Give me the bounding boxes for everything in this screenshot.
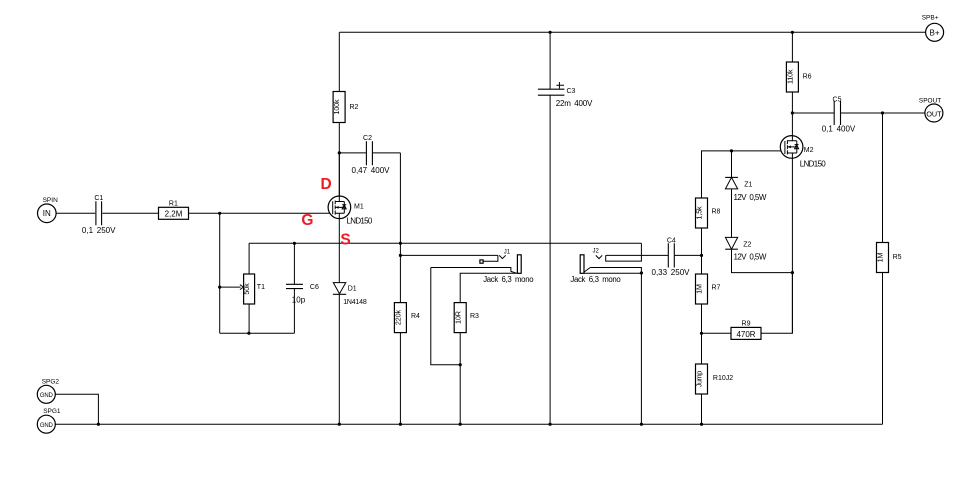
svg-text:C3: C3 — [567, 88, 576, 95]
node R2-C2 junction — [338, 151, 341, 154]
node T1 bottom junction — [247, 332, 250, 335]
svg-text:R8: R8 — [712, 209, 721, 216]
wire gate junction down to T1 branch — [219, 213, 221, 333]
svg-text:T1: T1 — [257, 284, 265, 291]
node R3-J1 junction — [459, 363, 462, 366]
node C5-R5 junction — [881, 111, 884, 114]
svg-text:R1: R1 — [169, 200, 178, 207]
zener Z2 — [725, 237, 792, 272]
wire top rail — [339, 31, 925, 33]
node R6-C5-M2 junction — [791, 111, 794, 114]
resistor R3 — [453, 303, 479, 425]
jack J1 — [400, 249, 534, 364]
jack J2 — [570, 243, 668, 424]
svg-text:LND150: LND150 — [800, 160, 826, 169]
node T1 wiper junction — [218, 286, 221, 289]
svg-text:S: S — [340, 232, 350, 249]
svg-text:0,33 250V: 0,33 250V — [652, 268, 691, 277]
svg-text:OUT: OUT — [926, 109, 942, 118]
resistor R1 — [159, 200, 189, 219]
svg-text:Z2: Z2 — [743, 242, 751, 249]
svg-text:0,1 400V: 0,1 400V — [822, 125, 856, 134]
svg-text:10p: 10p — [292, 296, 306, 305]
terminal SPG1 — [37, 408, 61, 433]
svg-text:Jump: Jump — [695, 371, 704, 387]
potentiometer T1 — [220, 243, 265, 333]
svg-text:LND150: LND150 — [347, 216, 373, 225]
node J2 ground junction — [640, 271, 643, 274]
svg-text:D: D — [321, 176, 332, 193]
svg-text:100k: 100k — [332, 99, 341, 115]
wire bottom rail — [55, 423, 882, 425]
svg-text:1N4148: 1N4148 — [343, 299, 367, 306]
node C3 top — [549, 31, 552, 34]
svg-text:M2: M2 — [804, 147, 814, 154]
svg-text:SPIN: SPIN — [43, 197, 58, 204]
svg-text:R7: R7 — [712, 284, 721, 291]
svg-text:R9: R9 — [742, 320, 751, 327]
svg-text:G: G — [301, 212, 313, 229]
terminal SPB+ — [922, 15, 944, 42]
svg-text:C4: C4 — [667, 237, 676, 244]
svg-text:12V 0,5W: 12V 0,5W — [734, 253, 767, 262]
svg-text:C6: C6 — [310, 284, 319, 291]
node C6 top junction — [293, 242, 296, 245]
svg-text:SPG2: SPG2 — [42, 378, 60, 385]
svg-text:GND: GND — [40, 393, 54, 399]
resistor R7 — [695, 255, 721, 333]
wire IN to C1 — [56, 212, 95, 214]
wire C2 down to R4 — [399, 153, 401, 303]
resistor R2 — [332, 32, 358, 153]
resistor R4 — [394, 303, 421, 425]
resistor R8 — [695, 151, 786, 256]
svg-text:J2: J2 — [593, 249, 600, 255]
capacitor C4 — [652, 237, 702, 277]
svg-text:1M: 1M — [876, 252, 885, 262]
node J1 tip branch — [399, 254, 402, 257]
svg-text:Jack 6,3 mono: Jack 6,3 mono — [570, 275, 621, 284]
svg-text:C2: C2 — [363, 135, 372, 142]
svg-text:SPB+: SPB+ — [922, 15, 939, 22]
resistor R6 — [785, 32, 811, 113]
capacitor C3 — [538, 32, 593, 424]
diode D1 — [333, 243, 367, 424]
svg-text:M1: M1 — [354, 204, 364, 211]
capacitor C1 — [82, 195, 116, 235]
node C4-R8-R7 junction — [700, 254, 703, 257]
terminal SPIN — [38, 197, 59, 223]
svg-text:R6: R6 — [803, 74, 812, 81]
node R6 top — [791, 31, 794, 34]
wire bottom of T1/C6 loop — [220, 332, 295, 334]
node R7-R9-R10 junction — [700, 332, 703, 335]
svg-text:R2: R2 — [350, 104, 359, 111]
svg-text:22m 400V: 22m 400V — [556, 99, 593, 108]
bottom rail junction dots — [97, 423, 100, 426]
svg-text:12V 0,5W: 12V 0,5W — [734, 193, 767, 202]
svg-text:10R: 10R — [453, 311, 462, 324]
svg-text:GND: GND — [40, 423, 54, 429]
svg-text:0,47 400V: 0,47 400V — [352, 166, 391, 175]
svg-text:D1: D1 — [348, 285, 357, 292]
capacitor C6 — [286, 243, 319, 333]
svg-text:Z1: Z1 — [744, 181, 752, 188]
svg-text:C5: C5 — [833, 96, 842, 103]
svg-text:Jack 6,3 mono: Jack 6,3 mono — [483, 275, 534, 284]
wire junction to M1 drain — [338, 153, 340, 202]
capacitor C5 — [792, 96, 925, 133]
svg-text:R10J2: R10J2 — [713, 375, 733, 382]
resistor R5 — [876, 113, 902, 424]
svg-text:SPOUT: SPOUT — [919, 97, 941, 104]
svg-text:IN: IN — [43, 209, 51, 218]
mosfet M2 — [780, 113, 826, 333]
svg-text:110k: 110k — [785, 69, 794, 84]
node gate junction — [218, 212, 221, 215]
svg-text:470R: 470R — [736, 330, 755, 339]
svg-text:50k: 50k — [242, 283, 251, 295]
svg-text:J1: J1 — [504, 249, 511, 255]
wire S rail — [249, 242, 641, 244]
resistor R10J2 — [695, 333, 734, 424]
svg-text:0,1 250V: 0,1 250V — [82, 226, 116, 235]
svg-text:R4: R4 — [411, 313, 420, 320]
zener Z1 — [725, 151, 767, 238]
svg-text:R3: R3 — [470, 313, 479, 320]
svg-text:B+: B+ — [929, 28, 939, 37]
svg-text:1,5k: 1,5k — [695, 206, 704, 220]
capacitor C2 — [339, 135, 400, 175]
node M2 source junction — [791, 271, 794, 274]
terminal SPG2 — [37, 378, 98, 424]
wire C1 to R1 — [102, 212, 158, 214]
terminal SPOUT — [919, 97, 943, 122]
mosfet M1 — [328, 153, 373, 243]
resistor R9 — [702, 273, 793, 340]
svg-text:2,2M: 2,2M — [165, 210, 183, 219]
svg-text:220k: 220k — [394, 310, 403, 326]
wire R1 to M1 gate — [189, 212, 333, 214]
svg-text:1M: 1M — [695, 284, 704, 294]
node S rail x400 — [399, 242, 402, 245]
svg-text:C1: C1 — [94, 195, 103, 202]
svg-text:R5: R5 — [893, 254, 902, 261]
svg-text:SPG1: SPG1 — [43, 408, 61, 415]
node Z1 top junction — [730, 149, 733, 152]
